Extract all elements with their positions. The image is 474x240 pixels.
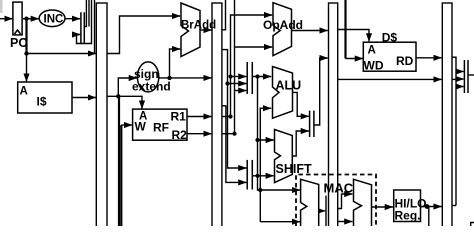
- svg-text:extend: extend: [132, 80, 171, 94]
- svg-text:INC: INC: [44, 14, 64, 26]
- svg-text:W: W: [135, 120, 147, 134]
- svg-text:RF: RF: [153, 121, 169, 135]
- svg-text:D$: D$: [382, 31, 398, 45]
- svg-text:BrAdd: BrAdd: [181, 20, 216, 32]
- svg-text:MAC: MAC: [324, 181, 354, 196]
- svg-text:A: A: [368, 45, 376, 57]
- svg-text:R1: R1: [171, 110, 187, 124]
- svg-text:OpAdd: OpAdd: [263, 18, 303, 32]
- svg-text:SHIFT: SHIFT: [276, 162, 312, 176]
- svg-text:I$: I$: [37, 95, 47, 109]
- svg-text:WD: WD: [364, 59, 384, 73]
- svg-text:R2: R2: [172, 128, 188, 142]
- svg-text:PC: PC: [10, 36, 27, 50]
- svg-text:A: A: [20, 86, 28, 98]
- svg-text:ALU: ALU: [276, 79, 302, 93]
- svg-text:Reg.: Reg.: [395, 209, 421, 223]
- svg-text:RD: RD: [396, 54, 414, 68]
